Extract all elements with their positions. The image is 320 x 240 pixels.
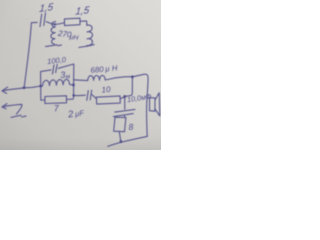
svg-text:8: 8 (128, 122, 134, 132)
svg-text:μН: μН (68, 34, 79, 42)
svg-text:μН: μН (104, 63, 120, 73)
svg-text:680: 680 (90, 65, 104, 75)
svg-text:μF: μF (74, 108, 85, 118)
svg-text:1,5: 1,5 (39, 2, 54, 15)
svg-text:10: 10 (101, 85, 111, 95)
svg-text:1,5: 1,5 (75, 5, 91, 18)
